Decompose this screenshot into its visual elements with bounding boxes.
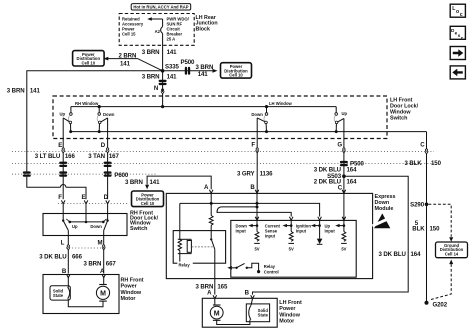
svg-text:Power: Power [279, 306, 296, 312]
svg-text:3 BRN: 3 BRN [125, 179, 143, 186]
svg-text:LH Window: LH Window [269, 101, 292, 106]
svg-text:E: E [82, 194, 86, 201]
svg-text:Cell 10: Cell 10 [229, 73, 243, 78]
svg-text:Window: Window [121, 290, 142, 296]
svg-text:3 BRN: 3 BRN [7, 88, 25, 95]
svg-text:L: L [61, 240, 65, 247]
svg-text:Motor: Motor [279, 319, 295, 325]
svg-text:Power: Power [121, 284, 138, 290]
svg-text:150: 150 [430, 226, 441, 233]
svg-text:A: A [204, 184, 209, 191]
svg-text:D: D [101, 142, 106, 149]
svg-text:c: c [460, 12, 463, 18]
svg-text:Up: Up [72, 224, 78, 229]
svg-text:P600: P600 [114, 172, 129, 179]
svg-text:S335: S335 [165, 64, 180, 71]
svg-text:A: A [207, 289, 212, 296]
svg-text:141: 141 [198, 71, 209, 78]
svg-text:Express: Express [375, 194, 396, 200]
svg-text:o: o [456, 9, 459, 15]
svg-text:Input: Input [265, 234, 276, 239]
svg-text:M: M [98, 240, 103, 247]
svg-text:G202: G202 [433, 302, 448, 309]
svg-text:667: 667 [106, 261, 117, 268]
svg-text:C: C [420, 142, 425, 149]
svg-text:B: B [250, 184, 255, 191]
svg-text:B: B [245, 289, 250, 296]
svg-text:Block: Block [196, 26, 210, 32]
svg-text:164: 164 [347, 179, 358, 186]
svg-text:3 LT BLU: 3 LT BLU [35, 153, 61, 160]
svg-text:Up: Up [342, 111, 348, 116]
svg-text:141: 141 [120, 61, 131, 68]
svg-text:Input: Input [296, 229, 307, 234]
svg-text:Down: Down [375, 200, 390, 206]
svg-text:Down: Down [103, 112, 115, 117]
svg-text:3 DK BLU: 3 DK BLU [378, 251, 406, 258]
svg-text:Switch: Switch [130, 226, 147, 232]
svg-text:2 BRN: 2 BRN [119, 52, 137, 59]
svg-text:Control: Control [264, 269, 279, 274]
svg-text:S290: S290 [410, 202, 425, 209]
svg-text:Relay: Relay [179, 263, 191, 268]
svg-text:Up: Up [60, 111, 66, 116]
svg-text:Down: Down [251, 112, 263, 117]
svg-text:Window: Window [279, 312, 300, 318]
svg-text:150: 150 [431, 160, 442, 167]
svg-text:M: M [100, 291, 106, 298]
svg-text:D: D [104, 194, 109, 201]
svg-text:Cell 10: Cell 10 [82, 60, 96, 65]
svg-text:BLK: BLK [412, 226, 425, 233]
svg-text:Switch: Switch [390, 116, 407, 122]
svg-text:RH Window: RH Window [75, 101, 99, 106]
svg-text:Hot In RUN, ACCY And RAP: Hot In RUN, ACCY And RAP [133, 5, 188, 10]
svg-text:165: 165 [217, 284, 228, 291]
svg-text:M: M [214, 310, 220, 317]
svg-text:3 DK BLU: 3 DK BLU [39, 254, 67, 261]
svg-text:Cell 15: Cell 15 [122, 32, 136, 37]
svg-text:167: 167 [109, 153, 120, 160]
svg-text:Cell 14: Cell 14 [445, 251, 459, 256]
svg-text:141: 141 [30, 88, 41, 95]
svg-text:164: 164 [411, 251, 422, 258]
svg-text:3 BRN: 3 BRN [142, 73, 160, 80]
svg-text:5V: 5V [289, 247, 294, 252]
svg-text:Relay: Relay [264, 264, 276, 269]
svg-text:P500: P500 [181, 59, 196, 66]
svg-text:141: 141 [150, 179, 161, 186]
svg-text:3 BRN: 3 BRN [142, 49, 160, 56]
svg-text:3 BLK: 3 BLK [404, 160, 422, 167]
svg-text:25 A: 25 A [167, 37, 176, 42]
svg-text:A2: A2 [155, 29, 161, 34]
svg-text:3 TAN: 3 TAN [88, 153, 105, 160]
svg-text:E: E [58, 142, 62, 149]
svg-text:164: 164 [347, 167, 358, 174]
svg-text:3 BRN: 3 BRN [84, 261, 102, 268]
svg-text:N: N [154, 85, 158, 92]
svg-text:666: 666 [72, 254, 83, 261]
svg-text:State: State [53, 293, 64, 298]
svg-text:c: c [461, 36, 464, 41]
svg-text:F: F [251, 142, 255, 149]
svg-text:State: State [258, 313, 269, 318]
svg-text:G: G [337, 142, 342, 149]
svg-text:3 GRY: 3 GRY [237, 170, 255, 177]
svg-text:RH Front: RH Front [121, 277, 144, 283]
svg-text:141: 141 [167, 49, 178, 56]
svg-text:5V: 5V [341, 247, 346, 252]
svg-text:Module: Module [375, 206, 394, 212]
svg-text:1136: 1136 [260, 170, 274, 177]
svg-text:166: 166 [65, 153, 76, 160]
svg-text:Input: Input [236, 229, 247, 234]
svg-text:Down: Down [90, 224, 102, 229]
svg-text:5V: 5V [254, 247, 259, 252]
svg-text:LH Front: LH Front [279, 300, 302, 306]
svg-text:F: F [58, 194, 62, 201]
svg-text:Cell 10: Cell 10 [141, 201, 155, 206]
svg-text:Input: Input [325, 229, 336, 234]
svg-text:141: 141 [167, 73, 178, 80]
svg-text:Motor: Motor [121, 296, 137, 302]
